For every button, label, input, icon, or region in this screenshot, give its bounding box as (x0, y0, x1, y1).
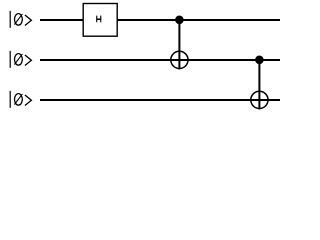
gate H (Hadamard) on q0 (83, 4, 117, 37)
node label |0> q2 (10, 91, 31, 108)
node label |0> q1 (10, 51, 31, 68)
CNOT target CX1 on q1 (171, 51, 188, 68)
control dot CX1 on q0 (175, 15, 184, 24)
wire q2 (40, 99, 280, 101)
wire q0 (40, 19, 280, 21)
wire CX1 vertical connector (178, 20, 180, 70)
control dot CX2 on q1 (255, 56, 264, 65)
wire CX2 vertical connector (258, 60, 260, 110)
wire q1 (40, 59, 280, 61)
node label |0> q0 (10, 11, 31, 28)
CNOT target CX2 on q2 (251, 91, 268, 108)
